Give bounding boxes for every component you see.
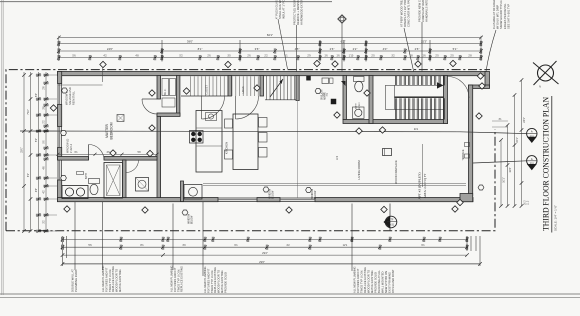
svg-text:TINGS TYP U.O.N.: TINGS TYP U.O.N. xyxy=(108,269,112,292)
svg-text:FIXTURES AND FIT: FIXTURES AND FIT xyxy=(104,267,108,292)
outer wall right main xyxy=(469,85,473,196)
right dimension ticks xyxy=(499,138,503,208)
outer wall top xyxy=(58,72,487,76)
staircase mid rail xyxy=(395,96,444,98)
svg-text:2'2": 2'2" xyxy=(353,47,358,51)
wall-below outline double line xyxy=(203,183,466,185)
bedroom door arc xyxy=(142,99,157,114)
powder sink xyxy=(353,107,365,119)
window head line top-left xyxy=(58,84,103,86)
svg-text:WOOD FLOOR TO: WOOD FLOOR TO xyxy=(217,270,221,293)
window/door tag diamonds xyxy=(100,61,106,67)
north arrow compass xyxy=(538,65,554,81)
towel bar xyxy=(77,172,84,175)
svg-text:24'0": 24'0" xyxy=(107,47,113,51)
dining chairs right xyxy=(259,118,268,128)
dining table xyxy=(233,114,258,170)
section marker 1 xyxy=(527,128,537,138)
svg-text:HARDWOOD EXTERIOR: HARDWOOD EXTERIOR xyxy=(300,0,304,25)
svg-text:HANDRAILS INTERIOR: HANDRAILS INTERIOR xyxy=(425,0,429,22)
section leader 2 xyxy=(473,161,527,163)
svg-text:REPLACE EXISTING: REPLACE EXISTING xyxy=(363,267,367,293)
elevation marker xyxy=(389,204,391,232)
svg-text:SCALE: 1/4" = 1'-0": SCALE: 1/4" = 1'-0" xyxy=(554,205,558,231)
svg-text:4" PLEXI GLASS W/ CTD: 4" PLEXI GLASS W/ CTD xyxy=(275,0,279,19)
svg-text:AREA: 2,213 SQ FT: AREA: 2,213 SQ FT xyxy=(423,174,427,199)
svg-text:ABOVE: ABOVE xyxy=(324,92,327,100)
svg-text:2'6": 2'6" xyxy=(330,47,335,51)
staircase right wall xyxy=(444,76,448,124)
bath door arc xyxy=(89,145,105,161)
svg-text:WINDOW: WINDOW xyxy=(270,188,272,199)
shower xyxy=(104,163,123,199)
staircase left wall xyxy=(369,76,373,124)
powder room door (filled wedge) xyxy=(341,81,346,86)
svg-text:ALL NEW PLUMBING: ALL NEW PLUMBING xyxy=(203,267,207,293)
svg-text:FIXTURES AND FIT: FIXTURES AND FIT xyxy=(173,267,177,292)
kitchen sink xyxy=(206,113,217,121)
svg-text:COMPLIANT REBAR: COMPLIANT REBAR xyxy=(421,0,425,22)
svg-text:ALL NEW PLUMBING: ALL NEW PLUMBING xyxy=(353,267,357,293)
svg-text:BATH: BATH xyxy=(85,173,88,179)
svg-text:WOOD FIREPLACE: WOOD FIREPLACE xyxy=(394,160,398,184)
closet hatch 1 xyxy=(191,76,229,96)
svg-text:BLOCKING AT ALL: BLOCKING AT ALL xyxy=(377,269,381,293)
svg-text:DOUBLE WALL AT: DOUBLE WALL AT xyxy=(71,269,75,292)
svg-text:STEEL RAIL W/ 1" RIGID: STEEL RAIL W/ 1" RIGID xyxy=(278,0,282,19)
svg-text:A: A xyxy=(531,157,533,161)
WIC bottom wall xyxy=(157,113,180,116)
staircase up arrow xyxy=(437,82,444,88)
svg-text:BELOW: BELOW xyxy=(192,215,194,224)
svg-text:A: A xyxy=(531,130,533,134)
bedroom interior dim line xyxy=(58,153,157,155)
svg-text:INSUL AT 1" POURED: INSUL AT 1" POURED xyxy=(282,0,286,19)
svg-text:2'-0x3'-2: 2'-0x3'-2 xyxy=(70,143,73,153)
laundry machine xyxy=(184,185,202,200)
svg-text:EDGES PER DETAIL: EDGES PER DETAIL xyxy=(503,3,507,29)
svg-text:29'6": 29'6" xyxy=(259,260,265,264)
outer wall left (with window gaps) xyxy=(58,72,62,84)
svg-text:11'0: 11'0 xyxy=(336,155,339,160)
page border top xyxy=(0,1,332,3)
closet door arcs xyxy=(202,96,225,119)
svg-text:PROTECT (E) ROOF W/: PROTECT (E) ROOF W/ xyxy=(293,0,297,25)
svg-text:9'1": 9'1" xyxy=(27,173,30,177)
svg-text:7'10": 7'10" xyxy=(27,109,30,115)
svg-text:TERRACE: TERRACE xyxy=(462,149,465,160)
hexagon note markers xyxy=(62,88,68,93)
interior wall vertical (bedroom/hall) xyxy=(157,76,161,100)
svg-text:SEE SHT A-501 TYP: SEE SHT A-501 TYP xyxy=(506,4,510,29)
closet hatch 2 xyxy=(232,76,258,96)
svg-text:82'1": 82'1" xyxy=(267,33,273,37)
closet divider 1 xyxy=(228,76,232,97)
svg-text:WALL MOUNTED: WALL MOUNTED xyxy=(381,271,385,293)
svg-text:TINGS TYP U.O.N.: TINGS TYP U.O.N. xyxy=(360,270,364,293)
bottom dimension row 2 xyxy=(63,246,468,248)
svg-text:REMOVE + REINSTALL: REMOVE + REINSTALL xyxy=(296,0,300,25)
svg-text:24'1: 24'1 xyxy=(414,129,419,131)
svg-text:AT PERF WOOD TREADS: AT PERF WOOD TREADS xyxy=(400,0,404,27)
svg-text:N: N xyxy=(539,85,541,89)
WIC door arc xyxy=(126,160,139,173)
staircase open well rail xyxy=(386,85,444,109)
svg-text:FLASHING AT RF EDGE: FLASHING AT RF EDGE xyxy=(492,0,496,29)
laundry wall xyxy=(181,181,184,202)
vanity with two sinks xyxy=(62,186,88,199)
svg-text:PROVIDE NEW CODE: PROVIDE NEW CODE xyxy=(418,0,422,22)
hall black rect mark xyxy=(331,99,336,104)
shaft rects left of powder xyxy=(322,78,329,84)
toilet lower xyxy=(89,179,100,184)
svg-text:EXIST FRAMING: EXIST FRAMING xyxy=(388,272,392,293)
bottom dimension extension verticals xyxy=(62,236,64,266)
toilet xyxy=(354,77,365,82)
interior wall horizontal (bedroom/bath) xyxy=(58,157,89,161)
windows in bottom wall xyxy=(218,197,257,199)
svg-text:SALVAGE AND: SALVAGE AND xyxy=(68,87,72,105)
svg-text:PROVIDE SOLID: PROVIDE SOLID xyxy=(374,272,378,293)
svg-text:BELOW: BELOW xyxy=(273,190,275,199)
property line boundary dash-dot rect xyxy=(6,70,490,231)
door hardware mark xyxy=(307,76,311,80)
leader from top diamond to wall xyxy=(102,68,104,82)
svg-text:8'1": 8'1" xyxy=(198,47,203,51)
svg-text:SNOW GUARD TYP ALL: SNOW GUARD TYP ALL xyxy=(499,0,503,29)
svg-text:FIXTURES AND FIT: FIXTURES AND FIT xyxy=(356,268,360,293)
top dimension row 3 xyxy=(59,50,481,52)
outer wall bottom (with window gaps) xyxy=(58,198,219,202)
svg-text:16.3: 16.3 xyxy=(525,200,527,205)
svg-text:5'1": 5'1" xyxy=(453,47,458,51)
svg-text:12'1: 12'1 xyxy=(343,244,348,247)
staircase lower flight treads xyxy=(396,98,445,119)
bottom dimension row 1 xyxy=(63,238,468,240)
svg-text:11'4": 11'4" xyxy=(509,167,512,172)
svg-text:11.2: 11.2 xyxy=(528,200,530,205)
bottom dimension row 4 xyxy=(63,263,481,265)
right wall jamb marks xyxy=(465,143,470,147)
svg-text:2'6": 2'6" xyxy=(415,47,420,51)
powder/stair bottom wall xyxy=(343,120,448,124)
svg-text:5'2": 5'2" xyxy=(35,138,38,142)
svg-text:MATCH EXISTING: MATCH EXISTING xyxy=(118,269,122,292)
svg-text:24'1": 24'1" xyxy=(523,117,526,123)
svg-text:REPLACE EXISTING: REPLACE EXISTING xyxy=(180,266,184,292)
left dimension ticks xyxy=(22,73,26,233)
bottom dimension row 3 xyxy=(63,254,468,256)
staircase upper flight treads xyxy=(396,76,445,86)
closet divider 2 xyxy=(260,76,264,97)
svg-text:15'1": 15'1" xyxy=(516,137,519,143)
svg-text:REPLACE EXISTING: REPLACE EXISTING xyxy=(213,267,217,293)
svg-text:MASTER: MASTER xyxy=(105,124,109,138)
svg-text:BATH: BATH xyxy=(355,103,358,109)
svg-text:WINDOW: WINDOW xyxy=(189,213,191,224)
svg-text:MATCH EXISTING: MATCH EXISTING xyxy=(220,270,224,293)
svg-text:4'5": 4'5" xyxy=(295,47,300,51)
svg-text:FIXTURES AND FIT: FIXTURES AND FIT xyxy=(206,268,210,293)
outer wall bottom-right corner xyxy=(460,194,473,202)
outer wall right jog xyxy=(469,85,490,89)
stove with burners xyxy=(190,131,204,144)
svg-text:PLUMBING RUNS: PLUMBING RUNS xyxy=(74,269,78,292)
page border left xyxy=(1,0,3,295)
svg-text:10'1": 10'1" xyxy=(503,177,506,183)
svg-text:WOOD FLOOR TO: WOOD FLOOR TO xyxy=(367,270,371,293)
svg-text:ALL NEW PLUMBING: ALL NEW PLUMBING xyxy=(170,266,174,292)
small stair to roof xyxy=(267,76,295,100)
svg-text:TINGS TYP U.O.N.: TINGS TYP U.O.N. xyxy=(176,269,180,292)
svg-text:CLOSET: CLOSET xyxy=(206,85,209,95)
svg-text:5'4": 5'4" xyxy=(35,93,38,97)
page border bottom double line xyxy=(0,293,580,295)
washer/dryer in closet xyxy=(136,178,149,192)
svg-text:W/ GALV MTL DRIP: W/ GALV MTL DRIP xyxy=(496,5,500,29)
leader lines to bottom notes xyxy=(74,200,76,270)
section cut line xyxy=(20,131,527,134)
svg-text:THIRD FLOOR CONSTRUCTION PLAN: THIRD FLOOR CONSTRUCTION PLAN xyxy=(541,96,551,231)
right dimension column lines xyxy=(500,140,502,206)
outer wall right upper xyxy=(485,72,490,88)
svg-text:NEW GYP BD ON: NEW GYP BD ON xyxy=(384,271,388,293)
svg-text:W.I.C.: W.I.C. xyxy=(164,88,167,95)
small stair arrow xyxy=(270,79,283,97)
windows in left wall xyxy=(57,84,59,105)
svg-text:4'6": 4'6" xyxy=(35,188,38,192)
svg-text:25'0": 25'0" xyxy=(21,147,24,153)
top tag diamond with circle xyxy=(338,15,346,23)
interior wall (dining/living) xyxy=(296,76,299,101)
svg-text:ENTRY: ENTRY xyxy=(359,102,361,110)
svg-text:CONC OVER MTL PAN: CONC OVER MTL PAN xyxy=(407,0,411,27)
kitchen island xyxy=(196,111,222,173)
svg-text:6'2": 6'2" xyxy=(341,39,346,43)
terrace door swing arc xyxy=(448,77,470,99)
left dimension column lines xyxy=(23,72,25,231)
svg-text:LIVING ROOM: LIVING ROOM xyxy=(357,160,361,180)
svg-text:KITCHEN: KITCHEN xyxy=(225,142,229,154)
svg-text:REPLACE EXISTING: REPLACE EXISTING xyxy=(111,266,115,292)
svg-text:REINSTALL: REINSTALL xyxy=(72,91,76,105)
WIC shelves xyxy=(162,79,169,96)
top dimension row 4 xyxy=(59,57,481,59)
svg-text:APT #3 (DUPLEX): APT #3 (DUPLEX) xyxy=(418,172,422,199)
svg-text:29'2": 29'2" xyxy=(262,251,268,255)
top dimension row 1 xyxy=(59,36,481,38)
svg-text:SKYLIGHT: SKYLIGHT xyxy=(322,88,324,100)
top dimension row 2 xyxy=(59,43,481,45)
bath/WIC divider xyxy=(123,160,127,198)
powder room wall xyxy=(343,76,347,120)
svg-text:MATCH EXISTING: MATCH EXISTING xyxy=(370,270,374,293)
svg-text:PROVIDE SOLID: PROVIDE SOLID xyxy=(223,272,227,293)
svg-text:39'0": 39'0" xyxy=(187,39,193,43)
right small dims near corner xyxy=(492,120,508,122)
svg-text:LINEN: LINEN xyxy=(242,86,245,93)
fireplace xyxy=(383,149,392,156)
svg-text:4'0": 4'0" xyxy=(383,47,388,51)
svg-text:TINGS TYP U.O.N.: TINGS TYP U.O.N. xyxy=(210,270,214,293)
svg-text:WINDOW: WINDOW xyxy=(312,188,314,199)
WIC right wall xyxy=(177,76,180,117)
svg-text:RISERS AT 1 1/2" PRD: RISERS AT 1 1/2" PRD xyxy=(403,0,407,27)
dining chairs left xyxy=(225,119,233,128)
svg-text:ALL NEW PLUMBING: ALL NEW PLUMBING xyxy=(101,266,105,292)
top dimension extension verticals xyxy=(58,36,60,61)
svg-text:BELOW: BELOW xyxy=(315,190,317,199)
svg-text:1'10: 1'10 xyxy=(349,54,354,57)
svg-text:3'6": 3'6" xyxy=(255,47,260,51)
section marker 2 xyxy=(527,156,537,166)
svg-text:PATCH AND PAINT: PATCH AND PAINT xyxy=(391,269,395,293)
svg-text:WOOD FLOOR TO: WOOD FLOOR TO xyxy=(115,269,119,292)
left dimension extension stubs xyxy=(44,74,57,76)
